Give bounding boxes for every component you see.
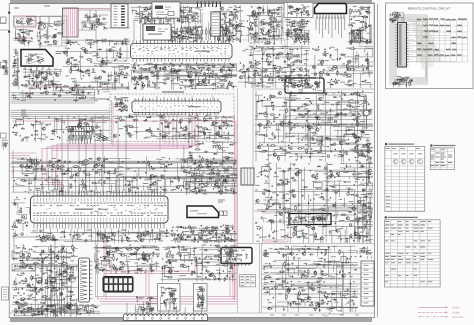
top box overlay with dark component [152,2,180,18]
bottom inner border line [9,312,374,314]
remote key matrix grid [417,20,468,62]
svg-text:Audio: Audio [452,310,460,314]
pink extra drops from IC02 [165,114,177,149]
power area below [21,68,63,91]
mid-left components y45-90 [63,47,131,90]
long horizontals y163-171 [11,164,231,172]
shielded tuner AGC box [284,3,313,18]
left of IC501 [11,197,30,243]
middle dense y162-243 [255,163,374,244]
IC501 inner pin ticks [34,198,164,222]
H-out box interior [288,81,322,91]
IC501 interior scatter [35,205,163,214]
bottom DIP IC thick with notch [221,248,252,264]
pink bits bottom middle-right [262,213,288,242]
remote bottom components [392,76,413,87]
tuner below components [167,26,203,44]
bottom below connector [14,304,100,317]
svg-text:Video: Video [452,305,460,309]
tuner box overlay [143,24,171,40]
bottom connector wires up [127,296,202,316]
speaker horn [361,25,372,43]
bottom left dense [12,244,79,317]
voltage table header [385,216,387,218]
vbox1 interior [160,286,178,310]
below IC501 [31,230,171,244]
mid gap y140-195 [181,141,238,195]
left components y88-102 [12,86,111,102]
pink bottom bus [95,297,237,305]
CRT connector vertical zigzag strip [79,258,90,302]
top-left tiny label [14,6,50,8]
main schematic border [9,4,374,318]
power block label right [56,52,64,54]
bottom right dense [263,246,359,313]
bottom DIP pins [224,264,249,267]
left margin parts2 [2,140,8,150]
IC02 inner text [140,106,218,109]
IC501 pins top [34,191,164,197]
degauss wires [78,10,130,40]
dashed box picture IF [110,94,234,142]
remote key switches [417,18,467,56]
small DIP box below flyback [202,231,217,241]
IC501 pins bottom [34,223,164,229]
remote wiring loops gray [390,15,428,85]
legend video line [418,306,448,308]
bottom right corner box [330,307,343,314]
IF input transformer box [97,41,127,61]
bottom-right bus wires [262,268,372,294]
top box interior [157,10,179,17]
IC01 pins bottom [133,59,229,62]
CRT socket block thick [289,214,331,225]
power area left [12,49,20,89]
H-out IC thick rounded box [285,78,324,93]
section divider x237 [237,88,239,313]
pink divider pair [235,115,237,300]
svg-text:Chroma: Chroma [452,315,463,319]
power block opamp triangle [29,54,45,65]
big junction circle right strip [364,110,370,116]
left margin connector 2 [1,62,7,68]
IC02 pin wires up [136,96,213,101]
top mid2 components [284,19,310,45]
pink bottom risers [96,228,150,299]
tuner box [143,24,171,40]
junction circle overlay right strip [364,110,370,116]
section frame y89 [253,88,375,90]
IC02 label [188,106,200,107]
IC501 center label [75,209,93,210]
sound IC wire drop field [316,19,345,39]
middle dense y90-160 [255,91,374,163]
shield box interior [287,5,309,17]
top-left components [36,18,65,46]
resistor groups below array [69,135,91,144]
IF above components [114,96,129,112]
right double border line [377,4,379,318]
IC table header [430,145,432,147]
far right y45-88 [311,46,374,89]
bottom mid upper [161,245,238,283]
left margin wire [0,19,9,31]
border junction blobs [8,12,10,14]
IC01 pins top [133,41,229,44]
IC01 label [196,51,210,52]
IC02 pins bottom [135,113,218,116]
vertical element row x197-228 [197,27,229,40]
remote IC vertical [398,23,407,68]
left band y155-195 [12,156,238,194]
top-left sub box outline [40,16,67,46]
CRT socket interior [292,215,329,224]
gray stub pair left [11,158,28,170]
bottom mid gap [134,296,157,316]
degauss lower strip [63,38,131,46]
degauss coil red hatch [63,8,79,37]
AC input box red outline [14,16,37,27]
IC501 big jungle IC [31,196,169,223]
bottom DIP interior [225,250,248,262]
IF column frame [240,40,286,162]
IC501 pin wires up and down [35,168,166,242]
IC501 pin label rows [33,203,167,216]
IF box components [113,114,235,141]
top box with dark component [152,2,180,18]
remote IC pins left [396,25,398,66]
tuner area components [131,6,204,25]
SAW filter vertical strip [211,12,220,36]
top right components [348,6,373,46]
resistor array RA01 [68,127,93,132]
AC input box interior [16,18,35,26]
remote control circuit box [386,3,474,89]
audio output transformer hatched [352,30,361,42]
remote upper-left components [389,12,404,23]
tuner pins up [146,21,168,25]
power block thick chamfered outline [21,50,53,67]
transformer box x241 [241,168,254,185]
top mid components [246,5,285,45]
IC01 inner text [134,48,226,54]
legend audio line [418,311,448,313]
pink stub left of corners [11,150,37,176]
oval sub-box right of IC501 [190,177,222,193]
left margin parts1 [2,60,8,75]
bus wires left upper [11,93,96,98]
bottom-left labeled box row 2 [12,264,35,271]
pin tick header x197 [198,3,221,8]
tall connector P801 right edge [361,261,374,306]
right of IC501 [170,225,237,243]
white box mid1 [337,102,350,114]
svg-text:REMOTE CONTROL CIRCUIT: REMOTE CONTROL CIRCUIT [408,6,451,10]
mini pin table [240,275,256,287]
sound IC block thick chamfered [315,4,347,14]
matrix diagonal swath [417,20,444,62]
IC02 pins top [135,98,218,101]
pink line y121 [12,120,233,122]
sub-circuit box below IC501 [14,237,55,258]
flyback drive block thick [187,206,219,218]
bus labels [21,101,26,117]
IC table [430,148,454,170]
sound IC pins below [317,14,344,17]
top gray band [10,0,372,4]
pink top-left degauss wiring [16,9,131,101]
flyback label above [218,200,225,202]
left margin connector 3 [1,133,7,138]
top-left vertical wire x40 [26,16,62,50]
small parallel marks [352,9,360,13]
legend chroma line [418,316,448,318]
remote IC to matrix wires [407,25,457,61]
bottom edge tick labels [270,314,359,316]
left margin connector 1 [1,17,7,23]
power block interior [25,54,45,64]
power block pins below [25,66,49,70]
transistor table header [385,143,387,145]
left components y115-142 [12,116,111,143]
bottom left dense2 [94,244,161,274]
section divider y243 [238,243,375,245]
section divider x253 [252,89,254,243]
section divider x260 double [259,244,261,314]
vertical output box 2 [194,284,208,312]
pink bus mid-left horizontal bundle with end corners [42,114,198,151]
IC01 inner ticks [133,45,229,57]
saw right components [213,5,245,43]
voltage table [385,220,441,287]
remote resistor [394,83,398,85]
bottom edge connector scalloped [124,314,208,321]
bus wires left 4-line [11,101,111,117]
vbox2 interior [196,287,207,310]
picture IF label [162,91,184,92]
remote IC pins right [407,25,409,66]
transistor table [385,147,425,212]
degauss cluster [81,13,109,30]
bottom-left labeled box row 1 [12,251,35,258]
pink left corners down to IC501 [42,144,63,196]
long verticals IC02 to IC501 [62,115,126,195]
pink branch up x111 [112,100,114,146]
IC01 long IF amp IC [131,44,233,59]
bottom gray band [10,318,372,323]
left margin connector 4 [2,287,9,300]
sound section frame [288,2,375,65]
relay contact bank [111,4,128,28]
white box mid3 [355,228,368,236]
vertical output box 1 [158,284,181,312]
SAW filter overlay [211,12,220,36]
below IC01 components [131,62,238,90]
bottom right edge strip [359,246,373,259]
power connector block with fingers [103,277,133,293]
IC01 pin wires up [134,13,229,42]
right of IC01 [238,46,311,89]
IC02 video chroma IC [132,101,221,113]
pink bus to vertical boxes [104,258,233,299]
table marks lower-left [386,197,390,207]
top-left lower [13,28,33,46]
remote loop wire stack [407,20,417,62]
transistor symbols in table [393,159,423,164]
white box mid2 [344,134,356,143]
right strip y90-243 [353,91,374,244]
